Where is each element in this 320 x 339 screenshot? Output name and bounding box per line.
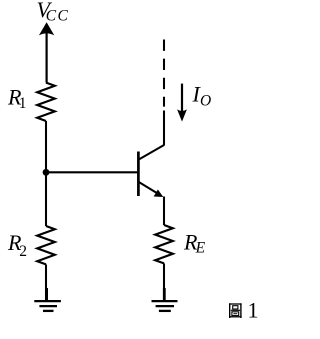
svg-text:1: 1 [248, 297, 259, 322]
node A junction dot [43, 169, 50, 176]
ground (right) [152, 288, 178, 311]
wire node to R2 [45, 172, 47, 226]
wire collector vertical solid [163, 111, 165, 146]
wire emitter to RE [163, 197, 165, 226]
svg-text:CC: CC [46, 8, 69, 25]
base bar [137, 152, 140, 197]
ground (left) [34, 288, 61, 311]
wire R1 bottom to node [45, 121, 47, 172]
current arrow Io [177, 84, 187, 122]
emitter diagonal [139, 182, 159, 194]
caption glyph 圖 [229, 303, 242, 318]
wire node to base [46, 171, 137, 173]
transistor Q1 [138, 145, 164, 197]
wire dashed collector load [163, 40, 165, 107]
svg-text:E: E [195, 240, 206, 257]
svg-text:O: O [200, 93, 211, 110]
resistor RE [155, 225, 173, 263]
svg-text:1: 1 [19, 95, 27, 112]
collector diagonal [139, 145, 164, 160]
svg-text:2: 2 [19, 243, 27, 260]
emitter arrowhead [154, 190, 164, 198]
resistor R1 [37, 83, 55, 121]
resistor R2 [37, 226, 55, 264]
wire RE to ground [163, 263, 165, 300]
power arrow Vcc [39, 22, 54, 82]
wire R2 to ground [45, 264, 47, 300]
